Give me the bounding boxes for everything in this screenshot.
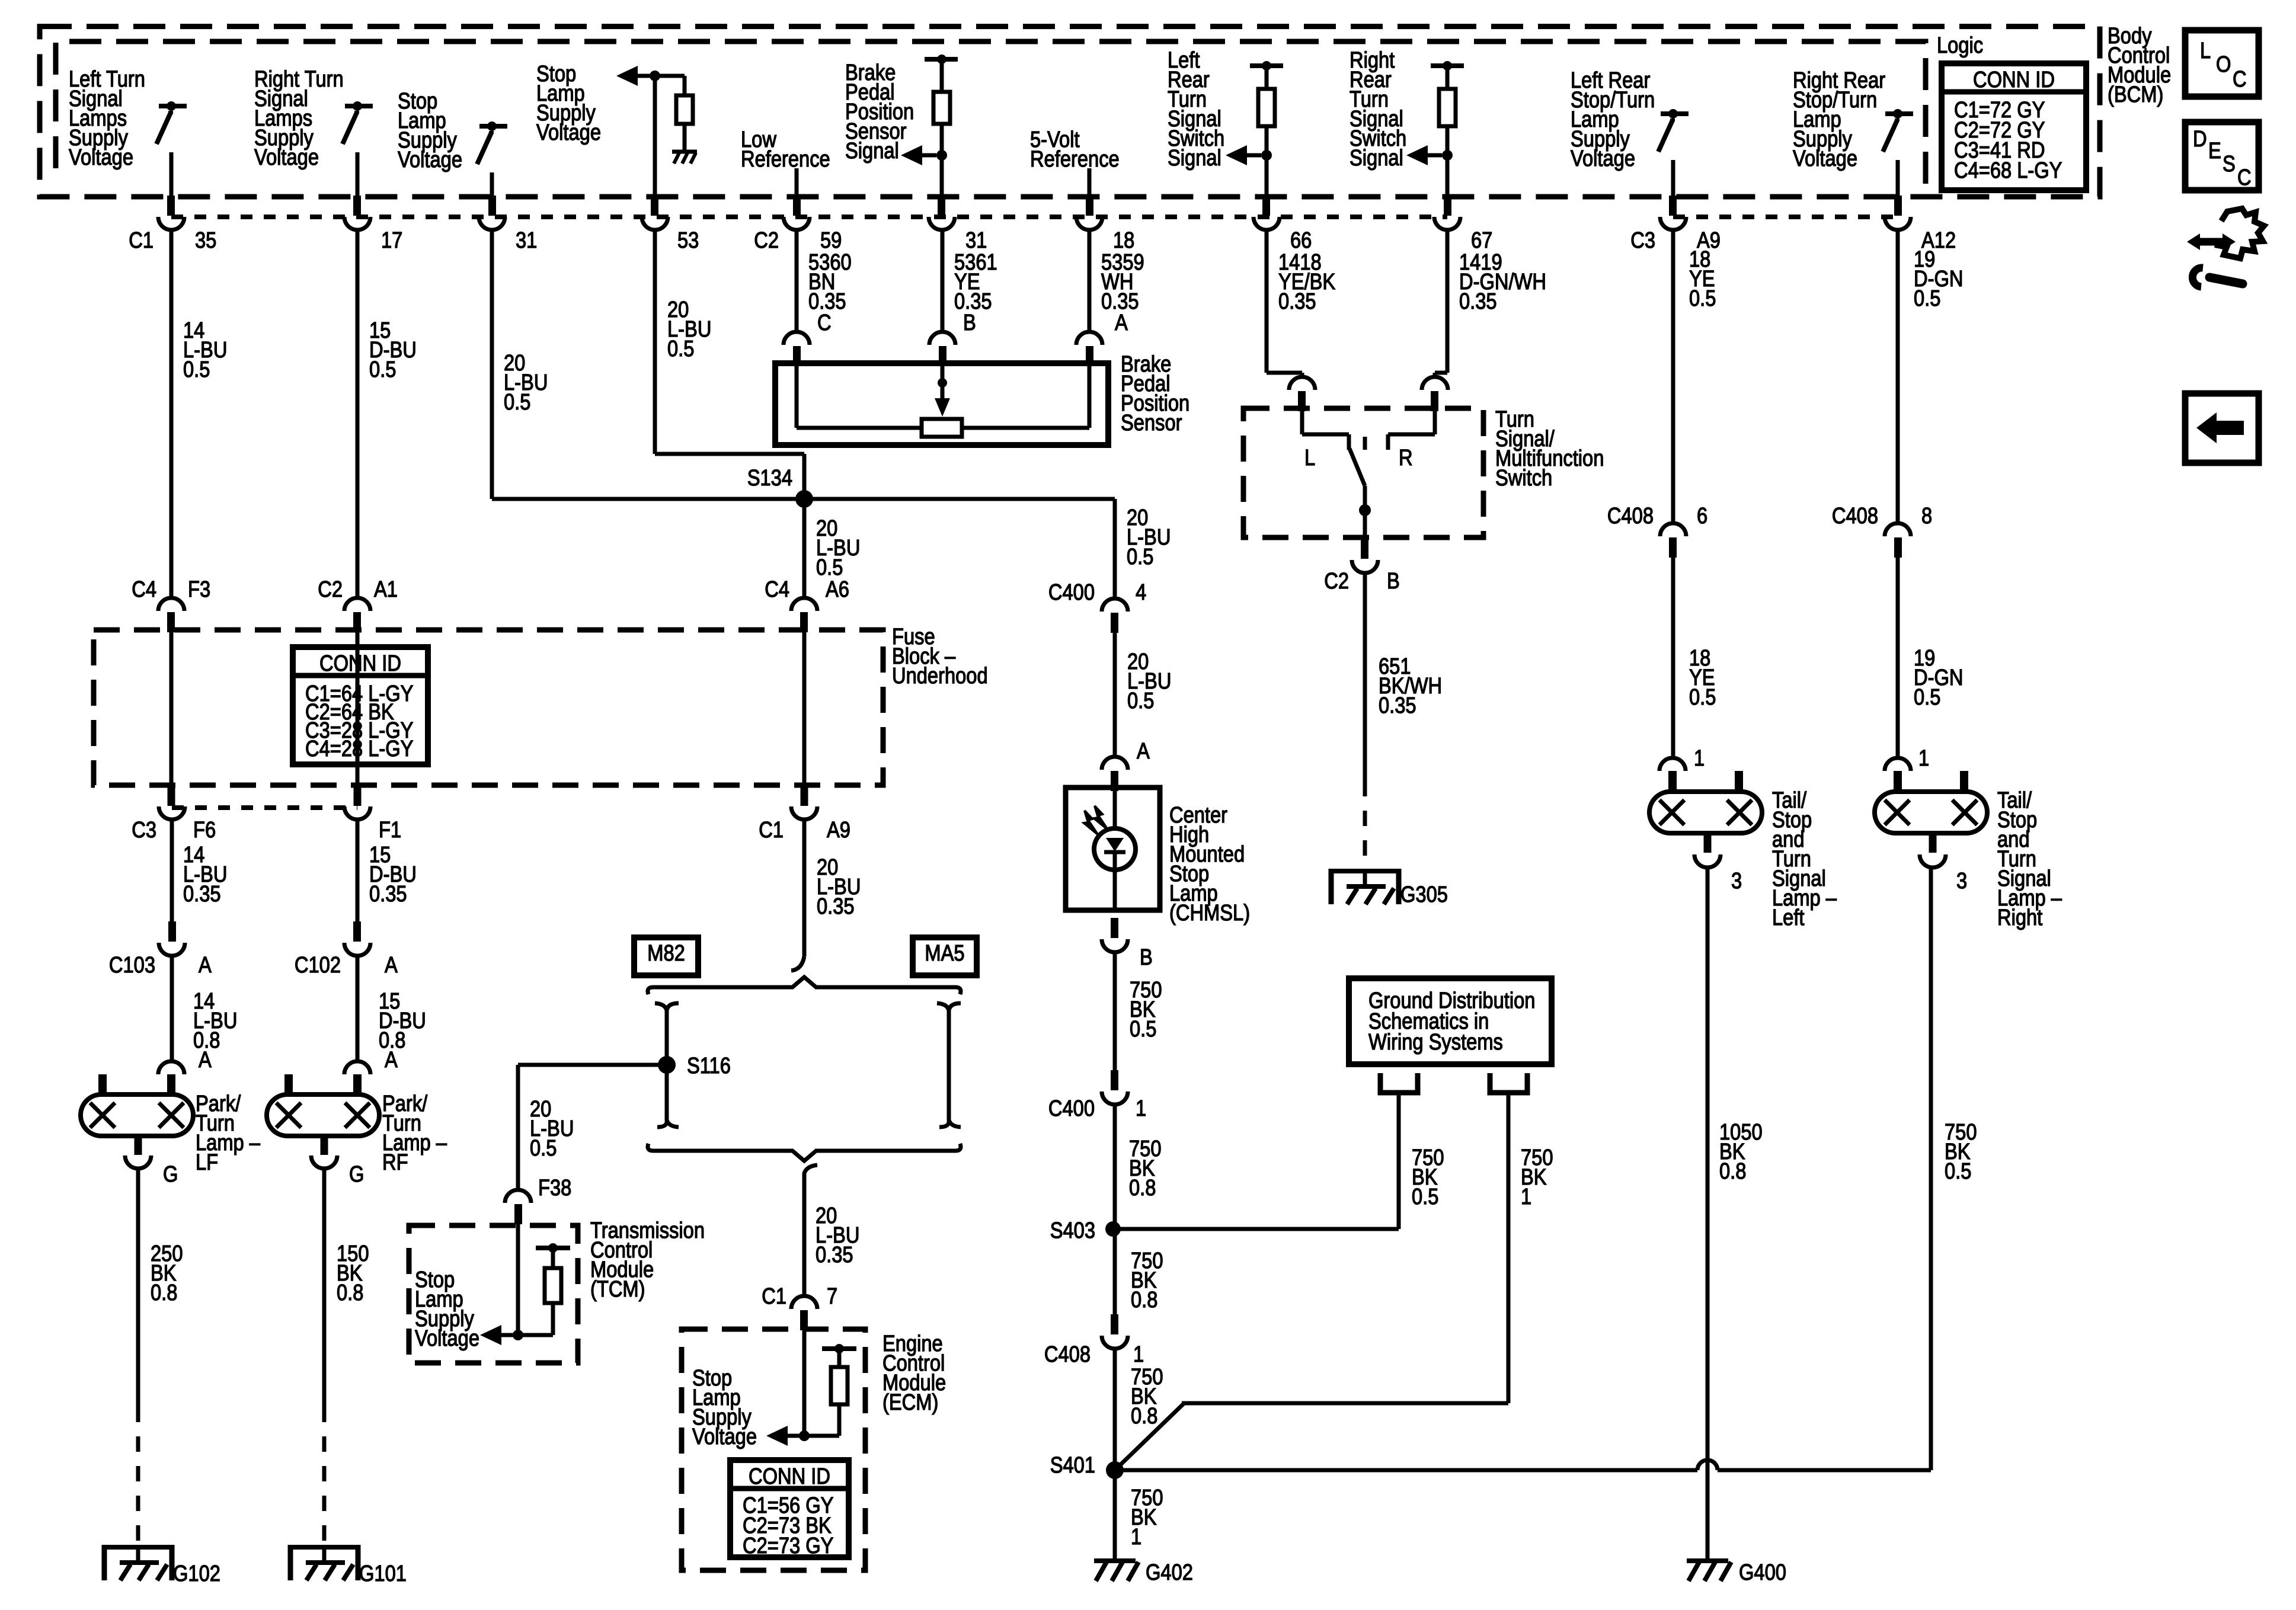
svg-text:C: C xyxy=(2237,165,2252,190)
wire 14 L-BU 0.35 xyxy=(170,820,174,923)
resistor internal 67 xyxy=(1431,63,1464,68)
svg-text:G101: G101 xyxy=(359,1561,407,1586)
icon wrench xyxy=(2209,277,2243,284)
svg-text:Underhood: Underhood xyxy=(892,663,988,689)
svg-text:A: A xyxy=(385,1047,398,1073)
svg-text:0.35: 0.35 xyxy=(183,881,221,907)
svg-text:0.5: 0.5 xyxy=(1689,684,1716,710)
svg-text:B: B xyxy=(1140,945,1153,970)
dashed wire to G305 xyxy=(1363,781,1367,869)
svg-text:C4: C4 xyxy=(132,577,156,602)
svg-text:S: S xyxy=(2223,151,2236,177)
svg-text:Left: Left xyxy=(1772,905,1805,930)
icon route polyline xyxy=(2215,209,2264,258)
wire 1050 BK 0.8 to G400 xyxy=(1706,868,1710,1560)
pin C1-7 ECM xyxy=(791,1296,817,1309)
wire xyxy=(490,172,494,201)
svg-text:0.5: 0.5 xyxy=(667,336,694,361)
pin C103-A xyxy=(168,921,176,942)
ground G402 xyxy=(1094,1558,1136,1563)
pin G lamp RF xyxy=(321,1135,328,1155)
MA5 tag box xyxy=(913,937,977,975)
pin 17 BCM xyxy=(353,196,361,216)
svg-text:C2: C2 xyxy=(318,577,343,602)
wire 20 L-BU 0.5 xyxy=(1113,632,1117,757)
svg-text:17: 17 xyxy=(381,228,402,253)
fuse block CONN ID table xyxy=(293,647,428,764)
svg-text:6: 6 xyxy=(1697,503,1707,529)
svg-text:S401: S401 xyxy=(1050,1452,1095,1478)
wire xyxy=(1671,160,1675,201)
svg-text:S116: S116 xyxy=(687,1053,731,1078)
svg-text:Right: Right xyxy=(1997,905,2042,930)
wire 750 BK 0.8 to S401 xyxy=(1113,1349,1117,1560)
svg-text:C1: C1 xyxy=(762,1283,786,1309)
svg-text:F38: F38 xyxy=(538,1175,571,1201)
splice S401 xyxy=(1106,1461,1124,1479)
wire 250 BK 0.8 xyxy=(136,1169,140,1407)
potentiometer body xyxy=(922,419,962,437)
svg-text:0.8: 0.8 xyxy=(1719,1158,1746,1184)
svg-text:31: 31 xyxy=(516,228,537,253)
Ground Distribution Schematics box xyxy=(1349,978,1552,1064)
pin 31 BCM xyxy=(938,196,945,216)
svg-text:F3: F3 xyxy=(188,577,210,602)
svg-text:C: C xyxy=(2233,66,2247,92)
Fuse Block - Underhood dashed box xyxy=(94,630,883,785)
svg-text:C2: C2 xyxy=(1324,568,1349,594)
wire 20 L-BU 0.5 down centre xyxy=(802,499,807,598)
svg-text:A: A xyxy=(385,952,398,978)
pin A sensor xyxy=(1076,332,1102,345)
pin 1 tail lamp right xyxy=(1885,758,1911,771)
svg-text:Voltage: Voltage xyxy=(415,1326,479,1351)
svg-text:C: C xyxy=(817,310,832,335)
pin 18 BCM xyxy=(1086,196,1093,216)
svg-text:C4: C4 xyxy=(765,577,789,602)
pin C2-59 BCM xyxy=(793,196,801,216)
svg-text:0.8: 0.8 xyxy=(1131,1287,1157,1313)
svg-text:O: O xyxy=(2216,52,2231,77)
svg-text:R: R xyxy=(1399,445,1413,470)
svg-text:C103: C103 xyxy=(109,952,155,978)
svg-text:F1: F1 xyxy=(379,817,401,843)
wire inside fuse block xyxy=(356,632,360,787)
lamp Tail/Stop Turn Right xyxy=(1875,792,1987,833)
off-page bracket bottom line with chevron xyxy=(648,1144,961,1161)
wiper xyxy=(941,366,945,398)
svg-text:Voltage: Voltage xyxy=(692,1424,757,1449)
connector C102/C103 dotted row xyxy=(172,805,357,810)
ground distribution left leg xyxy=(1380,1073,1418,1093)
icon double arrow xyxy=(2195,238,2227,246)
svg-text:0.35: 0.35 xyxy=(1278,289,1316,314)
pin C4-F3 fuse block xyxy=(158,598,184,611)
wire 20 L-BU 0.5 right branch xyxy=(1113,499,1117,598)
svg-text:M82: M82 xyxy=(647,940,685,966)
svg-text:1: 1 xyxy=(1136,1096,1146,1121)
svg-text:(CHMSL): (CHMSL) xyxy=(1169,900,1250,926)
svg-text:C3: C3 xyxy=(1630,228,1655,253)
svg-text:0.5: 0.5 xyxy=(530,1135,557,1161)
wire S403 to ground distribution leg xyxy=(1120,1227,1399,1231)
svg-text:C400: C400 xyxy=(1048,1096,1095,1121)
TCM dashed box xyxy=(409,1225,578,1363)
wire 20 L-BU 0.35 xyxy=(802,820,807,956)
svg-text:C408: C408 xyxy=(1832,503,1878,529)
pin A lamp RF xyxy=(344,1061,370,1074)
ECM internal wire xyxy=(802,1330,807,1436)
BCM inner dashed box xyxy=(56,41,1926,197)
svg-text:G: G xyxy=(349,1161,364,1187)
svg-text:0.8: 0.8 xyxy=(337,1280,363,1305)
svg-text:8: 8 xyxy=(1921,503,1932,529)
svg-text:Voltage: Voltage xyxy=(536,120,601,145)
resistor internal 66 xyxy=(1250,63,1283,68)
ground G102 xyxy=(104,1545,172,1550)
svg-text:CONN ID: CONN ID xyxy=(1973,67,2055,92)
pin C408-8 xyxy=(1885,523,1911,536)
svg-text:F6: F6 xyxy=(193,817,216,843)
splice S403 xyxy=(1105,1221,1121,1237)
switch centre contact xyxy=(1363,437,1367,450)
dashed wire to G101 xyxy=(322,1407,327,1545)
pin C1-A9 xyxy=(801,786,808,806)
svg-text:L: L xyxy=(1304,445,1315,470)
wire 19 D-GN 0.5 lower xyxy=(1896,557,1900,758)
lamp Park/Turn RF xyxy=(267,1094,379,1136)
TCM node + arrow Stop Lamp Supply Voltage xyxy=(513,1330,523,1340)
wire 18 YE 0.5 xyxy=(1671,230,1675,523)
pin B sensor xyxy=(929,332,955,345)
svg-text:S134: S134 xyxy=(747,465,792,491)
svg-text:0.8: 0.8 xyxy=(151,1280,177,1305)
svg-text:Switch: Switch xyxy=(1495,465,1552,491)
pin C3-F6 xyxy=(168,786,175,806)
ECM node + arrow Stop Lamp Supply Voltage xyxy=(799,1430,810,1441)
ECM internal resistor xyxy=(822,1346,856,1351)
svg-text:Voltage: Voltage xyxy=(398,147,462,172)
pin R multifunction switch xyxy=(1422,377,1448,390)
svg-text:4: 4 xyxy=(1136,580,1146,605)
pin C3-A9 BCM xyxy=(1669,196,1677,216)
svg-text:1: 1 xyxy=(1133,1342,1144,1367)
svg-text:C102: C102 xyxy=(295,952,341,978)
svg-text:0.5: 0.5 xyxy=(1130,1016,1156,1042)
wire xyxy=(170,152,174,201)
sensor internal wiring xyxy=(795,366,799,428)
svg-text:(TCM): (TCM) xyxy=(590,1276,645,1302)
wire 1419 D-GN/WH 0.35 xyxy=(1446,230,1450,373)
switch Left Turn output driver xyxy=(159,104,187,108)
svg-text:Signal: Signal xyxy=(1350,145,1403,171)
pin C400-4 xyxy=(1102,598,1128,612)
switch right rear driver xyxy=(1885,111,1913,116)
svg-text:A: A xyxy=(1115,310,1128,335)
svg-text:E: E xyxy=(2208,138,2221,164)
wire xyxy=(1896,160,1900,201)
svg-text:0.5: 0.5 xyxy=(183,357,210,382)
wire curl below bracket xyxy=(804,1165,817,1297)
pin C2-B switch xyxy=(1361,539,1368,559)
pin A CHMSL xyxy=(1102,757,1128,770)
wire curl above bracket xyxy=(791,956,804,971)
wire 750 BK 0.8 xyxy=(1113,1105,1117,1315)
svg-text:1: 1 xyxy=(1131,1524,1141,1550)
bracket inner left terminal xyxy=(657,1003,679,1127)
svg-text:0.35: 0.35 xyxy=(816,1242,853,1267)
wire diagonal from ground distribution xyxy=(1115,1403,1184,1470)
dashed wire to G102 xyxy=(136,1407,140,1545)
pin C102-A xyxy=(353,921,361,942)
pin L multifunction switch xyxy=(1289,377,1315,390)
svg-text:0.5: 0.5 xyxy=(504,389,530,415)
CHMSL box xyxy=(1066,788,1160,910)
svg-text:0.35: 0.35 xyxy=(817,894,855,919)
pin F1 xyxy=(354,786,362,806)
switch Right Turn output driver xyxy=(345,104,373,108)
pin 3 tail lamp right xyxy=(1929,831,1937,853)
wire 14 L-BU 0.8 A xyxy=(170,956,174,1062)
lamp Tail/Stop Turn Left xyxy=(1649,792,1762,833)
TCM internal wire xyxy=(516,1224,520,1335)
pin B CHMSL xyxy=(1111,918,1118,938)
wire main stop-lamp feed xyxy=(492,497,1115,501)
svg-text:Logic: Logic xyxy=(1937,33,1983,58)
svg-text:Signal: Signal xyxy=(845,138,899,164)
internal ground xyxy=(672,150,697,154)
svg-text:A1: A1 xyxy=(374,577,398,602)
switch L contact xyxy=(1302,433,1349,437)
svg-text:MA5: MA5 xyxy=(925,940,964,966)
wire 750 BK 0.5 xyxy=(1113,952,1117,1071)
switch common xyxy=(1363,486,1367,539)
pin C408-6 xyxy=(1660,523,1686,536)
svg-text:Sensor: Sensor xyxy=(1121,410,1182,436)
svg-text:3: 3 xyxy=(1956,868,1967,894)
wire inside fuse block xyxy=(802,632,807,787)
svg-text:0.35: 0.35 xyxy=(1379,693,1416,718)
lamp Park/Turn LF xyxy=(81,1094,193,1136)
wire jog to switch pin xyxy=(1435,371,1447,375)
svg-text:0.5: 0.5 xyxy=(1914,286,1940,311)
pin F38 TCM xyxy=(505,1190,531,1203)
svg-text:C4=68 L-GY: C4=68 L-GY xyxy=(1954,158,2062,183)
switch Stop Lamp output driver xyxy=(479,124,507,129)
icon DESC box xyxy=(2185,122,2259,190)
svg-text:35: 35 xyxy=(195,228,216,253)
wire 5360 BN 0.35 xyxy=(795,230,799,332)
wire 15 D-BU 0.8 A xyxy=(356,956,360,1062)
svg-text:A9: A9 xyxy=(827,817,850,843)
svg-text:G: G xyxy=(163,1161,178,1187)
Brake Pedal Position Sensor box xyxy=(775,363,1108,445)
wire 14 L-BU 0.5 xyxy=(170,230,174,598)
ECM CONN ID table xyxy=(730,1460,849,1557)
Turn Signal Multifunction Switch dashed box xyxy=(1243,408,1483,537)
svg-text:G305: G305 xyxy=(1400,882,1448,907)
svg-text:0.5: 0.5 xyxy=(1127,688,1154,713)
splice S116 xyxy=(658,1056,676,1074)
svg-text:CONN ID: CONN ID xyxy=(749,1464,830,1489)
svg-text:0.35: 0.35 xyxy=(369,881,407,907)
wire 651 BK/WH 0.35 xyxy=(1363,573,1367,781)
svg-text:A: A xyxy=(199,952,212,978)
pin C4-A6 fuse block xyxy=(791,598,817,611)
svg-text:C1: C1 xyxy=(129,228,154,253)
svg-text:CONN ID: CONN ID xyxy=(319,651,401,676)
svg-text:Reference: Reference xyxy=(1030,146,1120,172)
ground G400 xyxy=(1687,1558,1728,1563)
pin C1-35 BCM xyxy=(167,196,175,216)
pin 66 BCM xyxy=(1262,196,1270,216)
svg-text:(ECM): (ECM) xyxy=(882,1390,938,1415)
svg-text:0.5: 0.5 xyxy=(1412,1184,1438,1209)
splice S134 xyxy=(795,490,813,508)
resistor pull-up internal xyxy=(925,57,958,62)
wire 19 D-GN 0.5 xyxy=(1896,230,1900,523)
svg-text:A6: A6 xyxy=(826,577,849,602)
BCM CONN ID table xyxy=(1942,63,2086,190)
pin 67 BCM xyxy=(1444,196,1451,216)
pin C2-A1 fuse block xyxy=(344,598,370,611)
wire inside fuse block xyxy=(170,632,174,787)
wire S116 to F38 xyxy=(518,1063,659,1067)
pin C400-1 xyxy=(1111,1070,1118,1090)
svg-text:G102: G102 xyxy=(173,1561,220,1586)
wire 1418 YE/BK 0.35 xyxy=(1265,230,1269,373)
svg-text:C2=73 GY: C2=73 GY xyxy=(743,1533,833,1558)
switch R contact xyxy=(1388,433,1435,437)
svg-text:RF: RF xyxy=(382,1150,408,1175)
arrow signal 66 xyxy=(1261,150,1272,161)
wire 15 D-BU 0.35 xyxy=(356,820,360,923)
svg-text:1: 1 xyxy=(1521,1184,1531,1209)
svg-text:C400: C400 xyxy=(1048,580,1095,605)
svg-text:C408: C408 xyxy=(1607,503,1654,529)
pin A12 BCM xyxy=(1894,196,1902,216)
svg-text:LF: LF xyxy=(196,1150,218,1175)
pin 31 BCM xyxy=(488,196,496,216)
wire stub xyxy=(1088,168,1092,201)
svg-text:0.35: 0.35 xyxy=(1459,289,1497,314)
wire jog to S134 xyxy=(655,452,804,456)
pin 53 BCM xyxy=(651,196,658,216)
LED light arrows xyxy=(1084,811,1098,834)
pin G lamp LF xyxy=(135,1135,142,1155)
svg-text:(BCM): (BCM) xyxy=(2108,82,2163,107)
icon LOC box xyxy=(2185,30,2259,97)
pin C sensor xyxy=(784,332,810,345)
svg-text:53: 53 xyxy=(677,228,699,253)
pin A lamp LF xyxy=(158,1061,184,1074)
wire 20 L-BU 0.5 to S134 line xyxy=(490,230,494,499)
svg-text:0.8: 0.8 xyxy=(1131,1403,1157,1429)
switch left rear driver xyxy=(1661,111,1689,116)
pin 3 tail lamp left xyxy=(1704,831,1712,853)
ECM dashed box xyxy=(682,1329,865,1570)
svg-text:Reference: Reference xyxy=(741,146,830,172)
wire xyxy=(356,152,360,201)
M82 tag box xyxy=(634,937,698,975)
pin 1 tail lamp left xyxy=(1659,758,1686,771)
svg-text:0.5: 0.5 xyxy=(369,357,396,382)
node junction xyxy=(650,71,660,81)
wire 20 L-BU 0.5 xyxy=(653,230,657,454)
ground G305 xyxy=(1331,869,1399,873)
bracket inner right terminal xyxy=(939,1003,961,1127)
resistor internal xyxy=(683,76,687,95)
wire jog to switch pin xyxy=(1267,371,1302,375)
svg-text:Voltage: Voltage xyxy=(69,145,133,170)
wire stub xyxy=(795,168,799,201)
pin C408-1 xyxy=(1111,1314,1118,1334)
wire 5361 YE 0.35 xyxy=(941,230,945,332)
svg-text:S403: S403 xyxy=(1050,1218,1095,1243)
svg-text:Voltage: Voltage xyxy=(1793,146,1857,171)
wire 15 D-BU 0.5 xyxy=(356,230,360,598)
svg-text:B: B xyxy=(1387,568,1400,594)
TCM internal resistor xyxy=(536,1246,570,1250)
wire 18 YE 0.5 lower xyxy=(1671,557,1675,758)
svg-text:1: 1 xyxy=(1694,745,1705,771)
svg-text:Voltage: Voltage xyxy=(1571,146,1635,171)
wire 150 BK 0.8 xyxy=(322,1169,327,1407)
LED symbol xyxy=(1113,791,1117,829)
arrow signal 67 xyxy=(1442,150,1453,161)
svg-text:C2: C2 xyxy=(754,228,779,253)
BCM outer dashed box xyxy=(40,27,2100,197)
svg-text:3: 3 xyxy=(1731,868,1742,894)
svg-text:A: A xyxy=(199,1047,212,1073)
svg-text:A: A xyxy=(1137,738,1150,764)
off-page bracket top line with chevron xyxy=(648,977,961,994)
svg-text:L: L xyxy=(2200,38,2211,63)
svg-text:7: 7 xyxy=(827,1283,837,1309)
svg-text:B: B xyxy=(963,310,976,335)
svg-text:G400: G400 xyxy=(1739,1560,1786,1585)
icon back arrow box xyxy=(2185,393,2259,463)
switch blade xyxy=(1350,449,1365,486)
BCM connector row dotted line C3 xyxy=(1673,215,1898,219)
svg-text:C3: C3 xyxy=(132,817,156,843)
svg-text:Wiring Systems: Wiring Systems xyxy=(1368,1029,1503,1055)
svg-text:0.5: 0.5 xyxy=(1945,1158,1971,1184)
svg-text:D: D xyxy=(2193,126,2207,152)
svg-text:Signal: Signal xyxy=(1168,145,1221,171)
svg-text:G402: G402 xyxy=(1146,1560,1193,1585)
svg-text:0.8: 0.8 xyxy=(1129,1175,1156,1201)
svg-text:0.5: 0.5 xyxy=(1914,684,1940,710)
ground distribution right leg xyxy=(1490,1073,1527,1093)
wire 5359 WH 0.35 xyxy=(1088,230,1092,332)
svg-text:0.5: 0.5 xyxy=(1689,286,1716,311)
svg-text:C1: C1 xyxy=(759,817,784,843)
wire pin 53 xyxy=(653,79,657,201)
svg-text:C4=28 L-GY: C4=28 L-GY xyxy=(305,736,413,761)
svg-text:1: 1 xyxy=(1918,745,1929,771)
wire S401 to right tail lamp with hop xyxy=(1123,1468,1697,1473)
arrow signal out xyxy=(616,66,638,86)
BCM connector row dotted line C1-C2 xyxy=(171,215,1447,219)
wire 750 BK 0.5 to S401 xyxy=(1929,868,1933,1470)
arrow signal in xyxy=(936,150,947,161)
svg-text:0.5: 0.5 xyxy=(1127,544,1153,569)
ground G101 xyxy=(290,1545,358,1550)
svg-text:C408: C408 xyxy=(1044,1342,1091,1367)
svg-text:Voltage: Voltage xyxy=(254,145,319,170)
